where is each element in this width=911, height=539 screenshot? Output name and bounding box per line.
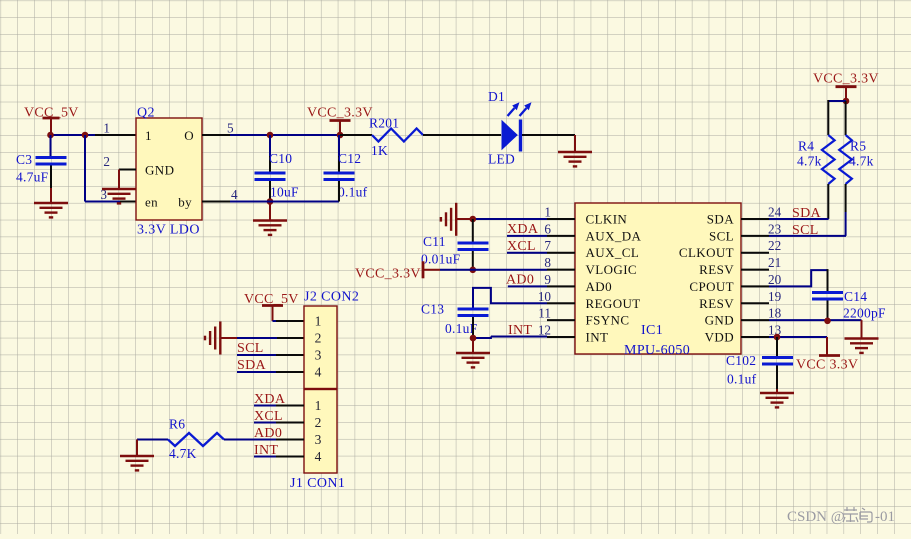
pin 8 stub (IC1 left): [544, 255, 575, 270]
designator Q2: [137, 106, 155, 121]
svg-text:6: 6: [544, 221, 551, 236]
svg-text:O: O: [184, 128, 194, 143]
label LED: [488, 152, 515, 167]
svg-text:LED: LED: [488, 152, 515, 167]
comment MPU-6050: [624, 343, 690, 358]
pin number 5 (Q2): [227, 121, 234, 136]
regulator Q2 3.3V LDO body: [136, 118, 202, 220]
wire C102 bottom lead: [776, 366, 778, 394]
designator D1: [488, 89, 505, 104]
junction output/C12/VCC_3.3V: [337, 132, 344, 139]
capacitor C3: [36, 158, 67, 165]
resistor R4: [822, 135, 835, 184]
pin 24 stub (IC1 right): [741, 205, 782, 220]
net label XDA (J1): [254, 392, 286, 407]
svg-text:XCL: XCL: [254, 409, 283, 424]
svg-text:XDA: XDA: [507, 222, 539, 237]
svg-text:18: 18: [768, 306, 782, 321]
svg-text:20: 20: [768, 272, 782, 287]
net label SCL: [792, 223, 819, 238]
svg-text:AD0: AD0: [586, 279, 612, 294]
svg-text:XCL: XCL: [507, 239, 536, 254]
wire J2 pin2: [220, 337, 304, 339]
designator C11: [423, 234, 446, 249]
svg-text:4.7k: 4.7k: [797, 154, 822, 169]
svg-text:AUX_CL: AUX_CL: [586, 245, 640, 260]
svg-text:-01: -01: [875, 509, 895, 525]
svg-text:C11: C11: [423, 234, 446, 249]
svg-text:VCC_3.3V: VCC_3.3V: [307, 106, 373, 121]
ground below C3: [34, 203, 68, 217]
ground at Q2 pin2: [102, 189, 136, 203]
junction GND/C14: [824, 318, 831, 325]
svg-text:19: 19: [768, 289, 782, 304]
wire J1 pin3 AD0: [224, 439, 304, 441]
svg-text:R201: R201: [369, 116, 399, 131]
designator R6: [169, 417, 185, 432]
pin 20 stub (IC1 right): [741, 272, 782, 287]
net label XCL (J1): [254, 409, 283, 424]
pin number 4 (Q2): [231, 187, 238, 202]
svg-text:11: 11: [538, 306, 551, 321]
pin number 3 (Q2): [100, 187, 107, 202]
svg-text:C12: C12: [338, 151, 361, 166]
svg-text:5: 5: [227, 121, 234, 136]
svg-text:RESV: RESV: [699, 296, 734, 311]
svg-text:7: 7: [544, 238, 551, 253]
wire J1 pin2 XCL: [254, 422, 304, 424]
wire C13 ground stem: [472, 338, 474, 353]
connector J1 CON1 body: [304, 390, 337, 474]
svg-text:22: 22: [768, 238, 781, 253]
junction VLOGIC/C11: [470, 267, 477, 274]
pin 21 stub (IC1 right): [741, 255, 781, 270]
svg-text:VLOGIC: VLOGIC: [586, 262, 638, 277]
svg-text:CLKIN: CLKIN: [586, 212, 628, 227]
svg-text:MPU-6050: MPU-6050: [624, 343, 690, 358]
pin 2 wire to ground: [119, 170, 136, 190]
svg-text:FSYNC: FSYNC: [586, 313, 630, 328]
ground below C102: [760, 393, 794, 407]
designator R4: [798, 139, 814, 154]
wire J2 pin3 SCL: [237, 354, 304, 356]
svg-text:2: 2: [103, 154, 110, 169]
wire J2 pin4 SDA: [237, 371, 304, 373]
pin 12 stub (IC1 left): [538, 323, 575, 338]
wire en feedback loop: [85, 135, 136, 202]
junction C10/by-net: [267, 198, 274, 205]
wire CPOUT to C14: [769, 269, 828, 291]
capacitor C102: [762, 358, 793, 365]
value 4.7uF: [16, 170, 49, 185]
junction VCC_5V/C3: [47, 132, 54, 139]
junction CLKIN/C11: [470, 216, 477, 223]
label C3: [16, 152, 32, 167]
svg-text:CPOUT: CPOUT: [689, 279, 734, 294]
power port VCC_3.3V (mid): [307, 106, 373, 136]
value 0.1uf (C102): [727, 372, 757, 387]
ground below C13: [456, 353, 490, 367]
pin 11 stub (IC1 left): [538, 306, 575, 321]
value 0.1uF (C13): [445, 321, 478, 336]
svg-text:2200pF: 2200pF: [843, 306, 886, 321]
svg-text:0.1uf: 0.1uf: [727, 372, 757, 387]
value 10uF: [270, 185, 299, 200]
pin number 1 (Q2): [103, 121, 110, 136]
capacitor C11: [458, 243, 489, 250]
svg-text:SCL: SCL: [237, 341, 264, 356]
watermark CSDN: [787, 507, 895, 525]
svg-text:D1: D1: [488, 89, 505, 104]
wire R4 to SDA: [769, 184, 829, 219]
svg-text:1: 1: [103, 121, 110, 136]
wire INT net: [491, 336, 547, 338]
svg-text:SDA: SDA: [792, 206, 821, 221]
svg-text:21: 21: [768, 255, 781, 270]
value 0.1uf: [338, 185, 368, 200]
wire VCC to R4: [828, 100, 846, 135]
svg-text:INT: INT: [254, 443, 278, 458]
svg-text:SCL: SCL: [709, 228, 734, 243]
svg-text:4: 4: [315, 449, 322, 464]
value 4.7k (R5): [849, 154, 874, 169]
wire C3 bottom lead: [50, 166, 52, 204]
pin number 2 (Q2): [103, 154, 110, 169]
wire VCC to R5: [845, 101, 847, 135]
power port VCC_3.3V (top right): [813, 72, 879, 101]
svg-text:VCC 3.3V: VCC 3.3V: [796, 358, 858, 373]
ground below C10: [253, 221, 287, 235]
wire C14 bottom lead: [827, 301, 829, 322]
svg-text:23: 23: [768, 221, 782, 236]
svg-text:CLKOUT: CLKOUT: [679, 245, 734, 260]
svg-text:4: 4: [231, 187, 238, 202]
designator C10: [269, 151, 292, 166]
net label SDA: [792, 206, 821, 221]
svg-text:0.01uF: 0.01uF: [421, 252, 461, 267]
svg-text:3.3V LDO: 3.3V LDO: [137, 223, 200, 238]
ground (rotated) at CLKIN: [441, 203, 456, 236]
svg-text:SCL: SCL: [792, 223, 819, 238]
value 0.01uF: [421, 252, 461, 267]
power port VCC 3.3V (VDD): [796, 337, 858, 373]
svg-text:SDA: SDA: [707, 212, 734, 227]
IC U1 MPU-6050 body: [575, 203, 741, 354]
junction VCC_5V/en: [82, 132, 89, 139]
net label AD0: [506, 273, 534, 288]
wire C10 top lead: [269, 135, 271, 172]
power port VCC_3.3V (VLOGIC): [355, 261, 440, 281]
svg-text:1: 1: [145, 128, 152, 143]
svg-text:4: 4: [315, 365, 322, 380]
svg-text:AD0: AD0: [254, 426, 282, 441]
svg-text:1: 1: [315, 398, 322, 413]
pin 23 stub (IC1 right): [741, 221, 782, 236]
power port VCC_5V (J2): [244, 292, 299, 321]
svg-text:R6: R6: [169, 417, 185, 432]
junction VCC_3.3V/R4/R5: [843, 98, 850, 105]
net label XDA: [507, 222, 539, 237]
capacitor C13: [458, 309, 489, 316]
svg-text:VCC_3.3V: VCC_3.3V: [355, 267, 421, 282]
wire Q2 output rail: [202, 134, 340, 136]
resistor R5: [839, 135, 852, 184]
connector J2 CON2 body: [304, 306, 337, 389]
junction output/C10: [267, 132, 274, 139]
svg-text:AUX_DA: AUX_DA: [586, 228, 642, 243]
svg-text:12: 12: [538, 323, 551, 338]
pin 9 stub (IC1 left): [544, 272, 575, 287]
capacitor C10: [255, 173, 286, 180]
pin 19 stub (IC1 right): [741, 289, 782, 304]
capacitor C12: [324, 173, 355, 180]
svg-text:C14: C14: [844, 289, 867, 304]
wire ground to R6: [137, 440, 168, 457]
designator C102: [726, 353, 756, 368]
comment 3.3V LDO: [137, 223, 200, 238]
designator C12: [338, 151, 361, 166]
wire REGOUT to C13: [473, 288, 547, 308]
ground at R6: [120, 456, 154, 470]
wire CLKIN net: [456, 218, 547, 220]
wire GND pin net: [769, 320, 862, 338]
designator J1 CON1: [290, 476, 345, 491]
svg-text:XDA: XDA: [254, 392, 286, 407]
value 4.7K (R6): [169, 446, 197, 461]
wire VLOGIC net: [440, 269, 547, 271]
designator IC1: [641, 323, 663, 338]
wire C3 top lead: [50, 135, 52, 156]
pin 18 stub (IC1 right): [741, 306, 782, 321]
power port VCC_5V (left): [24, 106, 79, 136]
capacitor C14: [812, 293, 843, 300]
net label AD0 (J1): [254, 426, 282, 441]
pin 7 stub (IC1 left): [544, 238, 575, 253]
net label SDA (J2): [237, 358, 266, 373]
svg-text:INT: INT: [586, 330, 609, 345]
designator R5: [850, 139, 866, 154]
wire AD0 net: [508, 285, 547, 287]
svg-text:3: 3: [315, 432, 322, 447]
wire to R201: [340, 134, 372, 136]
net label SCL (J2): [237, 341, 264, 356]
ground right of LED: [558, 152, 592, 166]
svg-text:24: 24: [768, 205, 782, 220]
wire C11 top lead: [472, 219, 474, 242]
svg-text:IC1: IC1: [641, 323, 663, 338]
svg-text:en: en: [145, 195, 158, 210]
ground at IC1 GND: [845, 339, 879, 353]
wire Q2 by pin to C12 bottom: [202, 201, 339, 203]
svg-text:VCC_3.3V: VCC_3.3V: [813, 72, 879, 87]
svg-text:4.7uF: 4.7uF: [16, 170, 49, 185]
wire J1 pin1 XDA: [254, 405, 304, 407]
ground (rotated) at J2 pin2: [205, 322, 220, 355]
net label INT (J1): [254, 443, 278, 458]
svg-text:2: 2: [315, 331, 322, 346]
svg-text:CSDN @: CSDN @: [787, 509, 845, 525]
svg-text:R4: R4: [798, 139, 814, 154]
pin 1 stub (IC1 left): [544, 205, 575, 220]
svg-text:1: 1: [315, 314, 322, 329]
net label INT: [508, 323, 532, 338]
value 1K: [371, 143, 388, 158]
svg-text:C13: C13: [421, 302, 444, 317]
wire VCC_5V rail to Q2 pin1: [51, 134, 137, 136]
wire LED cathode to ground: [522, 135, 575, 152]
wire R5 to SCL: [769, 184, 846, 236]
svg-text:REGOUT: REGOUT: [586, 296, 641, 311]
svg-text:2: 2: [315, 415, 322, 430]
designator C14: [844, 289, 867, 304]
designator C13: [421, 302, 444, 317]
svg-text:Q2: Q2: [137, 106, 155, 121]
svg-text:J1 CON1: J1 CON1: [290, 476, 345, 491]
wire C10 bottom lead: [269, 181, 271, 202]
svg-text:3: 3: [315, 348, 322, 363]
svg-text:R5: R5: [850, 139, 866, 154]
value 4.7k (R4): [797, 154, 822, 169]
pin 6 stub (IC1 left): [544, 221, 575, 236]
svg-text:J2 CON2: J2 CON2: [304, 290, 359, 305]
wire AUX_DA net: [507, 235, 547, 237]
svg-text:1: 1: [544, 205, 551, 220]
value 2200pF: [843, 306, 886, 321]
svg-text:1K: 1K: [371, 143, 388, 158]
svg-text:9: 9: [544, 272, 551, 287]
wire J1 pin4 INT: [254, 456, 304, 458]
svg-text:RESV: RESV: [699, 262, 734, 277]
junction C13/INT: [470, 335, 477, 342]
pin 13 stub (IC1 right): [741, 323, 782, 338]
wire C13 bottom lead: [473, 317, 491, 338]
wire C12 bottom lead: [338, 181, 340, 202]
wire C11 bottom lead: [472, 251, 474, 270]
svg-text:C10: C10: [269, 151, 292, 166]
svg-text:8: 8: [544, 255, 551, 270]
diode D1 LED: [502, 102, 532, 151]
net label XCL: [507, 239, 536, 254]
svg-text:10: 10: [538, 289, 552, 304]
svg-text:VDD: VDD: [705, 330, 734, 345]
svg-text:SDA: SDA: [237, 358, 266, 373]
wire J2 pin1: [273, 320, 305, 322]
resistor R201: [372, 129, 423, 142]
designator J2 CON2: [304, 290, 359, 305]
wire C10 ground stem: [269, 202, 271, 221]
svg-text:GND: GND: [705, 313, 734, 328]
resistor R6: [168, 433, 224, 446]
junction VDD/C102: [774, 334, 781, 341]
svg-text:by: by: [178, 195, 192, 210]
wire C12 top lead: [338, 135, 340, 172]
svg-text:4.7k: 4.7k: [849, 154, 874, 169]
designator R201: [369, 116, 399, 131]
wire VDD net: [769, 336, 827, 338]
wire C102 top lead: [776, 337, 778, 356]
svg-text:10uF: 10uF: [270, 185, 299, 200]
pin 22 stub (IC1 right): [741, 238, 781, 253]
wire AUX_CL net: [507, 252, 547, 254]
svg-text:AD0: AD0: [506, 273, 534, 288]
svg-text:4.7K: 4.7K: [169, 446, 197, 461]
svg-text:C3: C3: [16, 152, 32, 167]
svg-text:INT: INT: [508, 323, 532, 338]
svg-text:0.1uf: 0.1uf: [338, 185, 368, 200]
wire R201 to LED: [423, 134, 501, 136]
pin 10 stub (IC1 left): [538, 289, 575, 304]
svg-text:GND: GND: [145, 163, 174, 178]
svg-text:C102: C102: [726, 353, 756, 368]
